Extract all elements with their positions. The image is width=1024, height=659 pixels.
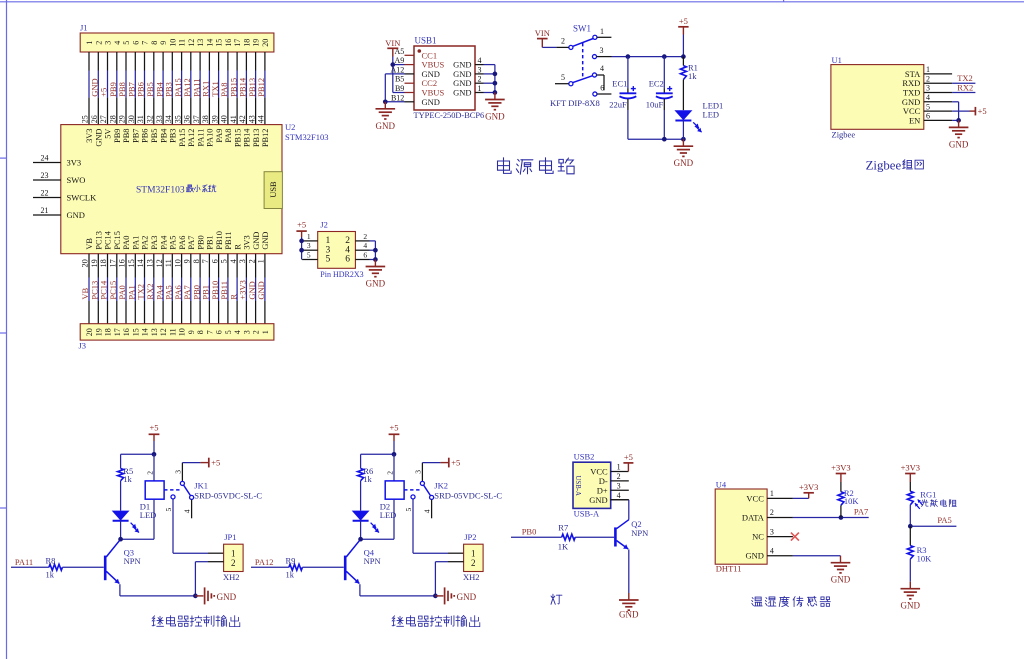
svg-text:PA1: PA1	[132, 236, 141, 250]
net label PA7	[182, 285, 192, 299]
transistor Q4 NPN	[345, 539, 380, 583]
pin 4	[924, 101, 952, 103]
svg-text:5: 5	[561, 73, 565, 82]
svg-text:PA4: PA4	[159, 235, 168, 250]
junctions top bus	[626, 54, 686, 59]
svg-text:3V3: 3V3	[67, 158, 82, 168]
pin B9	[405, 92, 415, 94]
svg-text:PB6: PB6	[141, 129, 150, 143]
svg-text:8: 8	[196, 330, 205, 334]
wire U2 pin 9 to J3 pin 9	[190, 254, 192, 324]
svg-text:USB2: USB2	[574, 452, 595, 462]
junction	[152, 452, 157, 457]
svg-text:USB: USB	[269, 181, 278, 198]
svg-text:GND: GND	[422, 97, 440, 107]
svg-text:4: 4	[113, 41, 122, 45]
svg-text:11: 11	[164, 259, 173, 267]
svg-text:PB10: PB10	[215, 231, 224, 249]
pin 1	[593, 27, 612, 40]
svg-text:TYPEC-250D-BCP6: TYPEC-250D-BCP6	[414, 111, 485, 120]
svg-text:3: 3	[770, 527, 774, 536]
wire +5 to J2 odd pins	[301, 237, 303, 260]
wire J1 pin 13 to U2 pin 37	[199, 52, 201, 125]
relay linkage dashed	[404, 489, 421, 491]
relay switch pin 4	[423, 495, 434, 518]
svg-text:STM32F103: STM32F103	[285, 132, 328, 142]
net label GND	[247, 281, 257, 299]
svg-text:5: 5	[404, 508, 413, 512]
wire +5 to R branch and coil	[121, 441, 154, 454]
svg-text:1k: 1k	[286, 570, 295, 580]
svg-text:+5: +5	[149, 423, 158, 433]
wire U2 pin 8 to J3 pin 8	[199, 254, 201, 324]
svg-text:GND: GND	[619, 610, 639, 620]
svg-text:2: 2	[385, 471, 394, 475]
svg-text:2: 2	[145, 471, 154, 475]
svg-text:5: 5	[122, 41, 131, 45]
net label PA4	[154, 285, 164, 300]
net label PA15	[173, 78, 183, 97]
svg-text:R7: R7	[558, 522, 568, 532]
svg-text:XH2: XH2	[463, 572, 480, 582]
svg-text:16: 16	[224, 39, 233, 47]
svg-text:6: 6	[600, 83, 604, 92]
svg-text:8: 8	[150, 41, 159, 45]
net label PA6	[173, 285, 183, 299]
svg-text:19: 19	[252, 39, 261, 47]
wire emitter to ground	[628, 549, 630, 593]
net label +5	[99, 88, 109, 97]
svg-text:13: 13	[146, 259, 155, 267]
svg-text:33: 33	[155, 115, 164, 123]
svg-text:4: 4	[423, 509, 432, 513]
svg-text:27: 27	[99, 115, 108, 123]
svg-text:GND: GND	[831, 575, 851, 585]
svg-text:Zigbee: Zigbee	[866, 159, 902, 173]
svg-text:6: 6	[131, 41, 140, 45]
connector JP2 XH2	[463, 532, 483, 582]
pin A12	[405, 73, 415, 75]
svg-text:+5: +5	[978, 106, 987, 116]
junction at collector	[118, 537, 123, 542]
wire GND A12/B12	[385, 74, 404, 102]
svg-text:NPN: NPN	[364, 556, 381, 566]
svg-text:STM32F103: STM32F103	[136, 185, 185, 195]
svg-text:USB-A: USB-A	[574, 509, 600, 519]
svg-text:GND: GND	[217, 592, 237, 602]
svg-text:4: 4	[926, 93, 930, 102]
pin 2	[767, 517, 793, 519]
relay linkage dashed	[164, 489, 181, 491]
svg-text:15: 15	[131, 328, 140, 336]
svg-text:JK1: JK1	[194, 481, 208, 491]
svg-text:PA0: PA0	[122, 236, 131, 250]
svg-text:14: 14	[205, 39, 214, 47]
power port +5 at USB2	[623, 452, 633, 472]
net label PA0	[117, 285, 127, 299]
svg-text:SWCLK: SWCLK	[67, 193, 98, 203]
wire U2 pin 3 to J3 pin 3	[245, 254, 247, 324]
power port VIN at USB1	[385, 38, 400, 57]
svg-text:GND: GND	[589, 495, 607, 505]
svg-text:GND: GND	[67, 210, 85, 220]
svg-text:U4: U4	[716, 480, 727, 490]
svg-text:PB11: PB11	[224, 231, 233, 249]
net label PA12	[255, 557, 274, 567]
wire J1 pin 10 to U2 pin 34	[171, 52, 173, 125]
svg-text:PA2: PA2	[141, 236, 150, 250]
pin 4	[611, 499, 629, 501]
ground GND left of USB1	[376, 102, 396, 131]
svg-text:GND: GND	[457, 592, 477, 602]
wire J1 pin 4 to U2 pin 28	[116, 52, 118, 125]
transistor Q3 NPN	[105, 539, 140, 583]
pin 3	[767, 536, 793, 538]
svg-text:9: 9	[159, 41, 168, 45]
svg-text:PB12: PB12	[256, 78, 266, 97]
wire U2 pin 6 to J3 pin 6	[218, 254, 220, 324]
svg-text:1: 1	[600, 27, 604, 36]
wire JP1 pin2 to ground bus	[195, 562, 223, 596]
ground GND below LED1	[674, 139, 694, 168]
wire J1 pin 14 to U2 pin 38	[208, 52, 210, 125]
wire U2 pin 15 to J3 pin 15	[134, 254, 136, 324]
net label PB14	[238, 77, 248, 97]
svg-text:6: 6	[215, 330, 224, 334]
photoresistor RG1	[907, 482, 936, 526]
connector J1	[80, 23, 274, 52]
net label PA11	[15, 557, 33, 567]
Zigbee module U1	[831, 55, 952, 140]
junction ground bus	[433, 594, 438, 599]
svg-text:GND: GND	[901, 601, 921, 611]
svg-text:5: 5	[926, 102, 930, 111]
net label PC15	[108, 281, 118, 300]
svg-text:PB9: PB9	[113, 129, 122, 143]
pin 3	[592, 46, 611, 59]
wire U2 pin 17 to J3 pin 17	[116, 254, 118, 324]
svg-text:+5: +5	[211, 458, 220, 468]
svg-text:PA8: PA8	[224, 129, 233, 143]
svg-text:1: 1	[257, 259, 266, 263]
pin 5	[302, 259, 318, 261]
svg-text:10: 10	[173, 259, 182, 267]
svg-text:13: 13	[196, 39, 205, 47]
svg-text:PB1: PB1	[206, 235, 215, 249]
svg-text:PB12: PB12	[261, 129, 270, 147]
wire +5 to R branch and coil	[361, 441, 394, 454]
svg-text:+3V3: +3V3	[799, 482, 818, 492]
net label GND	[256, 281, 266, 299]
wire divider tap PA5	[910, 525, 956, 527]
svg-text:R8: R8	[46, 555, 56, 565]
svg-text:+3V3: +3V3	[901, 462, 920, 472]
pin 4	[592, 64, 604, 90]
svg-text:3: 3	[242, 330, 251, 334]
svg-text:3V3: 3V3	[243, 235, 252, 249]
svg-text:PA6: PA6	[178, 236, 187, 250]
pin 2	[475, 82, 484, 84]
svg-text:GND: GND	[485, 112, 505, 122]
pin 5	[555, 73, 573, 86]
resistor R2 10K	[838, 482, 860, 518]
svg-text:DATA: DATA	[742, 513, 765, 523]
svg-text:2: 2	[926, 74, 930, 83]
svg-text:6: 6	[210, 259, 219, 263]
svg-text:35: 35	[173, 115, 182, 123]
wire TX2 net	[952, 82, 975, 84]
pin 3	[475, 73, 484, 75]
svg-text:5V: 5V	[104, 129, 113, 139]
svg-text:1: 1	[85, 41, 94, 45]
svg-text:LED: LED	[703, 109, 720, 119]
wire J1 pin 11 to U2 pin 35	[181, 52, 183, 125]
wire U1 GND/EN to ground	[952, 102, 959, 121]
svg-text:RX2: RX2	[957, 82, 973, 92]
wire +5 rail top bus	[612, 35, 684, 57]
svg-text:NPN: NPN	[124, 556, 141, 566]
net label RX2	[145, 284, 155, 300]
junction tap	[908, 524, 913, 529]
relay switch pin 3	[413, 463, 440, 486]
svg-text:5: 5	[164, 508, 173, 512]
svg-text:2: 2	[252, 330, 261, 334]
junction DATA	[839, 515, 844, 520]
svg-text:40: 40	[220, 115, 229, 123]
pin 4	[767, 555, 793, 557]
svg-text:1: 1	[307, 232, 311, 241]
svg-text:GND: GND	[674, 158, 694, 168]
svg-text:JP2: JP2	[464, 532, 476, 542]
wire J2 even pins to ground	[374, 241, 376, 260]
wire USB1 shield pins to ground	[494, 65, 496, 93]
svg-text:1: 1	[617, 463, 621, 472]
wire bottom bus	[628, 138, 684, 140]
junctions on USB1 right bus	[493, 72, 498, 95]
svg-text:3: 3	[173, 470, 182, 474]
power port +5 above relay JK2	[389, 423, 400, 441]
svg-text:VCC: VCC	[746, 493, 764, 503]
svg-text:XH2: XH2	[223, 572, 240, 582]
svg-text:Zigbee: Zigbee	[832, 129, 856, 139]
wire U2 pin 12 to J3 pin 12	[162, 254, 164, 324]
junction ground bus	[193, 594, 198, 599]
wire U2 pin 2 to J3 pin 2	[255, 254, 257, 324]
net label PA11	[191, 79, 201, 97]
wire J1 pin 6 to U2 pin 30	[134, 52, 136, 125]
svg-text:6: 6	[345, 255, 350, 265]
net label PA5	[164, 285, 174, 299]
resistor R5 1k	[118, 454, 134, 510]
switch linkage dashed	[582, 43, 584, 79]
svg-text:J3: J3	[79, 341, 87, 351]
svg-text:3: 3	[307, 241, 311, 250]
svg-text:PA9: PA9	[215, 129, 224, 143]
svg-text:NC: NC	[752, 532, 764, 542]
net label R	[228, 294, 238, 300]
svg-text:U1: U1	[832, 55, 842, 65]
svg-text:15: 15	[127, 259, 136, 267]
svg-text:1k: 1k	[123, 474, 132, 484]
svg-text:1k: 1k	[688, 71, 697, 81]
svg-text:4: 4	[363, 241, 367, 250]
svg-text:5: 5	[220, 259, 229, 263]
svg-text:36: 36	[183, 115, 192, 123]
svg-text:+5: +5	[679, 16, 688, 26]
junctions J2 right	[373, 248, 378, 262]
svg-text:11: 11	[168, 328, 177, 336]
svg-text:9: 9	[183, 259, 192, 263]
wire J1 pin 5 to U2 pin 29	[125, 52, 127, 125]
svg-text:7: 7	[201, 259, 210, 263]
svg-text:41: 41	[229, 115, 238, 123]
pin A9	[405, 64, 415, 66]
pin 6	[355, 259, 369, 261]
svg-text:1k: 1k	[363, 474, 372, 484]
svg-text:3: 3	[238, 259, 247, 263]
svg-text:R9: R9	[286, 555, 296, 565]
svg-text:PB0: PB0	[522, 527, 537, 537]
power port +5 above R1	[678, 16, 688, 34]
wire U2 pin 4 to J3 pin 4	[236, 254, 238, 324]
title power circuit	[498, 158, 575, 174]
label photoresistor	[921, 500, 956, 507]
svg-text:29: 29	[118, 115, 127, 123]
svg-text:GND: GND	[376, 121, 396, 131]
svg-text:6: 6	[363, 251, 367, 260]
ground GND right of USB1	[485, 93, 505, 122]
ground GND at J2	[366, 260, 386, 289]
svg-text:22uF: 22uF	[609, 99, 627, 109]
svg-text:21: 21	[41, 206, 49, 215]
net label PB13	[247, 78, 257, 97]
svg-text:+5: +5	[451, 458, 460, 468]
svg-text:4: 4	[617, 491, 621, 500]
svg-text:17: 17	[233, 39, 242, 47]
wire VIN to VBUS pins	[393, 57, 405, 93]
junctions J2 left	[299, 239, 304, 253]
svg-text:32: 32	[146, 115, 155, 123]
svg-text:PB7: PB7	[132, 129, 141, 143]
svg-text:4: 4	[478, 56, 482, 65]
net label VB	[80, 287, 90, 299]
wire U2 pin 14 to J3 pin 14	[144, 254, 146, 324]
net label PA7	[854, 506, 868, 516]
svg-text:J2: J2	[320, 220, 328, 230]
wire U2 pin 10 to J3 pin 10	[181, 254, 183, 324]
net label TX2	[957, 73, 973, 83]
svg-text:2: 2	[478, 75, 482, 84]
wire J1 pin 15 to U2 pin 39	[218, 52, 220, 125]
wire GND pin to ground	[793, 555, 841, 557]
pin 3	[611, 489, 629, 491]
pin A5	[405, 54, 415, 56]
svg-text:Pin HDR2X3: Pin HDR2X3	[320, 270, 363, 279]
net label PA8	[219, 82, 229, 96]
svg-text:B9: B9	[395, 84, 404, 93]
power port +5 above relay JK1	[149, 423, 160, 441]
svg-text:44: 44	[257, 115, 266, 123]
svg-text:34: 34	[164, 115, 173, 123]
resistor R6 1k	[358, 454, 374, 510]
svg-text:PB8: PB8	[122, 129, 131, 143]
svg-text:38: 38	[201, 115, 210, 123]
pin 3	[924, 92, 952, 94]
svg-text:23: 23	[41, 171, 49, 180]
svg-text:EC1: EC1	[612, 78, 627, 88]
svg-text:PB13: PB13	[252, 129, 261, 147]
net label RX1	[201, 81, 211, 97]
svg-text:20: 20	[81, 259, 90, 267]
svg-text:19: 19	[94, 328, 103, 336]
svg-text:B12: B12	[391, 93, 404, 102]
svg-text:16: 16	[122, 328, 131, 336]
ground GND below R3	[901, 582, 921, 611]
title relay control output	[152, 616, 240, 627]
net label RX2	[957, 82, 973, 92]
svg-text:PA15: PA15	[178, 129, 187, 147]
svg-text:+3V3: +3V3	[831, 462, 850, 472]
svg-text:5: 5	[326, 255, 331, 265]
pin 1	[924, 73, 952, 75]
svg-text:10K: 10K	[844, 496, 860, 506]
sensor U4 DHT11	[715, 480, 793, 574]
net label PB8	[117, 82, 127, 97]
pin B12	[405, 101, 415, 103]
net label PA12	[182, 78, 192, 97]
svg-text:PA11: PA11	[15, 557, 33, 567]
title Zigbee network	[866, 159, 924, 173]
svg-text:PB0: PB0	[196, 235, 205, 249]
pin 2	[556, 37, 573, 50]
svg-text:43: 43	[247, 115, 256, 123]
svg-text:GND: GND	[261, 232, 270, 250]
wire DATA net PA7	[793, 517, 869, 519]
wire U2 pin 19 to J3 pin 19	[97, 254, 99, 324]
svg-text:JP1: JP1	[224, 532, 236, 542]
svg-text:USB-A: USB-A	[574, 476, 581, 496]
svg-text:2: 2	[231, 558, 236, 568]
svg-text:10: 10	[178, 328, 187, 336]
title temperature humidity sensor	[752, 596, 831, 606]
svg-text:4: 4	[183, 509, 192, 513]
pin 2	[611, 480, 629, 482]
svg-text:KFT DIP-8X8: KFT DIP-8X8	[550, 98, 600, 108]
svg-text:B5: B5	[395, 75, 404, 84]
svg-text:3V3: 3V3	[85, 129, 94, 143]
svg-text:4: 4	[600, 64, 604, 73]
pin 5	[924, 110, 952, 112]
svg-text:17: 17	[109, 259, 118, 267]
svg-text:D+: D+	[597, 485, 608, 495]
ground GND bar style	[195, 587, 236, 604]
svg-text:NPN: NPN	[631, 528, 648, 538]
power port +3V3 above R2	[831, 462, 850, 482]
power port VIN at SW1	[535, 28, 550, 47]
svg-text:PA5: PA5	[937, 515, 951, 525]
wire J1 pin 19 to U2 pin 43	[255, 52, 257, 125]
net label PB15	[228, 78, 238, 97]
svg-text:+5: +5	[297, 220, 306, 230]
connector J2 Pin HDR2X3	[302, 220, 375, 279]
svg-text:4: 4	[233, 330, 242, 334]
svg-text:3: 3	[413, 470, 422, 474]
svg-text:PB5: PB5	[150, 129, 159, 143]
relay switch arm	[424, 485, 431, 495]
ground GND bar style	[435, 587, 476, 604]
wire J1 pin 8 to U2 pin 32	[153, 52, 155, 125]
resistor R7 1K	[511, 522, 614, 551]
